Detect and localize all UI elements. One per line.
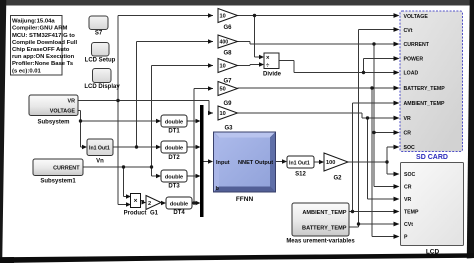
wire CURRENT branch to Product in1 <box>124 167 128 197</box>
arrowhead DT3 to Mux <box>196 174 201 178</box>
svg-text:CVt: CVt <box>404 222 413 228</box>
block DT4 double <box>166 197 192 216</box>
block LCD Setup <box>85 43 116 64</box>
svg-text:Divide: Divide <box>263 72 282 78</box>
svg-text:10: 10 <box>220 64 226 70</box>
arrowhead into Vn <box>82 145 87 149</box>
svg-text:VR: VR <box>404 197 411 203</box>
annotation model info box <box>11 16 79 76</box>
svg-text:DT3: DT3 <box>168 184 180 190</box>
junction dot CURRENT/CR riser <box>372 42 375 45</box>
junction dot G6/Divide branch <box>253 14 256 17</box>
svg-text:CVt: CVt <box>404 28 413 34</box>
gain G9 <box>218 82 238 108</box>
junction dot AMBIENT riser <box>351 210 354 213</box>
block S7 <box>89 16 108 37</box>
arrowhead into DT4 <box>161 201 166 205</box>
arrowhead SD VR port <box>394 116 400 121</box>
block DT3 double <box>161 170 187 190</box>
wire riser LOAD net to SD POWER port <box>364 59 395 73</box>
arrowhead DT4 to Mux <box>196 201 201 205</box>
wire branch CVt net to LCD CVt port <box>359 223 395 225</box>
svg-text:LCD Setup: LCD Setup <box>85 58 116 64</box>
svg-text:Vn: Vn <box>96 159 104 165</box>
block DT1 double <box>161 115 187 135</box>
wire FFNN output to S12 <box>276 161 282 163</box>
svg-text:Subsystem: Subsystem <box>37 120 69 126</box>
arrowhead into G8 <box>208 39 213 43</box>
arrowhead SD VOLTAGE port <box>394 13 400 18</box>
svg-text:P: P <box>404 235 408 241</box>
wire BATTERY_TEMP out up to SD CVt port <box>349 30 394 228</box>
arrowhead into G7 <box>208 63 213 67</box>
svg-text:DT4: DT4 <box>173 210 185 216</box>
junction dot VR/LCD VR riser <box>366 116 369 119</box>
junction dot CURRENT/Product riser <box>122 165 125 168</box>
wire VOLTAGE out to DT1 <box>78 111 156 122</box>
wire S12 out to G2 <box>314 161 319 163</box>
svg-text:double: double <box>165 119 183 125</box>
subsystem VOLTAGE <box>29 95 78 126</box>
wire riser CURRENT net down to SD CR and LCD CR <box>374 44 394 187</box>
block S12 (In1 Out1) <box>287 156 314 178</box>
wire G3 out to SD VR port <box>238 113 395 118</box>
svg-text:S12: S12 <box>295 172 306 178</box>
wire G1 out to DT4 <box>161 202 162 204</box>
junction dot CVt branch <box>357 222 360 225</box>
junction dot DT4/G9 riser <box>192 201 195 204</box>
junction dot Vn/G8 riser <box>135 145 138 148</box>
junction dot SOC split <box>385 160 388 163</box>
wire Vn out to DT2 <box>113 146 156 148</box>
svg-text:50: 50 <box>220 87 226 93</box>
svg-text:NNET Output: NNET Output <box>238 160 273 166</box>
svg-text:G9: G9 <box>223 101 232 107</box>
wire riser CURRENT to G7 and down to DT3 <box>152 66 214 177</box>
svg-text:Subsystem1: Subsystem1 <box>40 179 76 185</box>
arrowhead LCD P port <box>394 234 400 239</box>
svg-text:CURRENT: CURRENT <box>53 166 80 172</box>
svg-text:G3: G3 <box>224 126 233 132</box>
arrowhead into Divide x <box>259 55 264 59</box>
subsystem Measurement-variables <box>286 203 355 245</box>
wire DT4 out to Mux <box>192 202 196 204</box>
svg-text:100: 100 <box>326 160 335 166</box>
wire G2 out SOC net <box>348 161 387 163</box>
arrowhead SD LOAD port <box>394 70 400 75</box>
gain G6 <box>218 9 238 32</box>
arrowhead into Product in1 <box>126 194 131 198</box>
gain G2 <box>324 153 348 182</box>
svg-text:×: × <box>266 55 270 61</box>
arrowhead SD CVt port <box>394 27 400 32</box>
arrowhead SD CR port <box>394 130 400 135</box>
arrowhead SD CURRENT port <box>394 42 400 47</box>
svg-text:AMBIENT_TEMP: AMBIENT_TEMP <box>404 101 445 107</box>
wire Divide out to SD LOAD port <box>279 61 394 73</box>
wire G9 out to SD BATTERY_TEMP port <box>238 87 395 89</box>
svg-text:SOC: SOC <box>404 145 415 151</box>
block Product <box>124 194 147 217</box>
wire Product out to G1 <box>141 201 144 203</box>
arrowhead LCD CVt port <box>394 222 400 227</box>
neural network FFNN <box>213 132 276 204</box>
arrowhead into G1 <box>142 201 147 205</box>
svg-text:double: double <box>165 174 183 180</box>
block DT2 double <box>161 141 187 161</box>
svg-text:10: 10 <box>220 14 226 20</box>
wire riser Vn to G8 <box>137 42 214 148</box>
mux Mux <box>200 105 204 217</box>
arrowhead SD AMBIENT_TEMP port <box>394 101 400 106</box>
svg-text:In1 Out1: In1 Out1 <box>89 145 110 151</box>
junction dot CR branch <box>372 131 375 134</box>
block Divide <box>263 53 282 78</box>
wire G8 out to SD CURRENT port <box>238 42 395 45</box>
arrowhead into G3 <box>208 111 213 115</box>
svg-text:CR: CR <box>404 185 412 191</box>
arrowhead SD BATTERY_TEMP port <box>394 86 400 91</box>
subsystem SD CARD <box>400 11 463 161</box>
arrowhead into DT2 <box>156 145 161 149</box>
subsystem LCD <box>401 163 464 256</box>
svg-text:G8: G8 <box>223 51 232 57</box>
frame right bar <box>467 0 474 259</box>
arrowhead LCD CR port <box>394 184 400 189</box>
svg-text:Meas urement-variables: Meas urement-variables <box>286 239 355 245</box>
svg-text:×: × <box>134 197 138 204</box>
junction dot BATTERY/P riser <box>370 86 373 89</box>
svg-text:G2: G2 <box>333 176 342 182</box>
svg-text:LOAD: LOAD <box>404 71 419 77</box>
wire VR net: VOLTAGE.VR to G3 input corner <box>78 101 213 114</box>
frame top bar <box>0 0 474 6</box>
junction dot LOAD/POWER riser <box>362 71 365 74</box>
svg-text:S7: S7 <box>95 31 103 37</box>
wire AMBIENT_TEMP out to LCD TEMP port <box>349 211 394 213</box>
wire Mux out to FFNN Input <box>204 161 209 163</box>
svg-text:VOLTAGE: VOLTAGE <box>404 14 429 20</box>
svg-text:CR: CR <box>404 131 412 137</box>
svg-text:400: 400 <box>220 40 229 46</box>
arrowhead into FFNN Input <box>208 159 213 163</box>
svg-text:VR: VR <box>68 99 76 105</box>
svg-text:G1: G1 <box>150 211 159 217</box>
svg-text:LCD Display: LCD Display <box>84 84 120 90</box>
junction dot CURRENT/G7 riser <box>150 165 153 168</box>
frame left bar <box>0 0 6 263</box>
svg-text:CURRENT: CURRENT <box>404 42 430 48</box>
arrowhead LCD SOC port <box>394 172 400 177</box>
svg-text:G6: G6 <box>223 25 232 31</box>
wire riser VR to G6 and down to Product in2 <box>118 16 213 205</box>
subsystem CURRENT <box>33 159 83 185</box>
svg-text:10: 10 <box>220 111 226 117</box>
gain G7 <box>218 59 238 85</box>
arrowhead into G9 <box>208 86 213 90</box>
wire DT1 out to Mux <box>187 120 196 122</box>
svg-text:TEMP: TEMP <box>404 210 419 216</box>
wire VOLTAGE branch down to Vn In1 <box>81 121 83 147</box>
wire DT3 out to Mux <box>187 175 196 177</box>
gain G8 <box>218 35 238 57</box>
frame bottom bar <box>0 253 474 263</box>
wire DT2 out to Mux <box>187 146 196 148</box>
svg-text:double: double <box>170 201 188 207</box>
arrowhead into Divide div <box>259 62 264 66</box>
junction dot VOLTAGE branch <box>79 119 82 122</box>
arrowhead into DT1 <box>156 119 161 123</box>
arrowhead DT1 to Mux <box>196 119 201 123</box>
wire riser BATTERY net down to LCD P port <box>372 88 394 237</box>
svg-text:In1 Out1: In1 Out1 <box>289 160 310 166</box>
wire G7 out to Divide div input <box>238 65 260 66</box>
svg-text:BATTERY_TEMP: BATTERY_TEMP <box>302 225 347 231</box>
block LCD Display <box>84 69 120 91</box>
gain G3 <box>218 106 238 132</box>
wire G6 branch down to Divide x input <box>255 16 260 58</box>
arrowhead into G2 <box>319 160 324 164</box>
svg-text:Input: Input <box>216 160 230 166</box>
gain G1 <box>146 196 161 217</box>
svg-text:VOLTAGE: VOLTAGE <box>50 109 76 115</box>
svg-text:POWER: POWER <box>404 57 424 63</box>
wire riser SOC net to SD SOC and LCD SOC <box>387 147 394 174</box>
block Vn (In1 Out1) <box>87 139 113 165</box>
wire G6 out to SD VOLTAGE port <box>238 15 395 17</box>
wire riser AMBIENT net up to SD AMBIENT_TEMP port <box>353 103 395 212</box>
svg-text:Product: Product <box>124 211 147 217</box>
svg-text:FFNN: FFNN <box>236 196 254 203</box>
wire riser DT4 net to G9 input <box>194 89 213 204</box>
arrowhead into DT3 <box>156 174 161 178</box>
svg-text:Waijung:15.04a Compiler:GNU AR: Waijung:15.04a Compiler:GNU ARM MCU: STM… <box>12 19 79 75</box>
arrowhead SD POWER port <box>394 56 400 61</box>
svg-text:AMBIENT_TEMP: AMBIENT_TEMP <box>302 210 346 216</box>
arrowhead into G6 <box>208 13 213 17</box>
arrowhead SD SOC port <box>394 145 400 150</box>
wire riser VR net down to LCD VR port <box>368 118 395 199</box>
svg-text:double: double <box>165 145 183 151</box>
arrowhead LCD VR port <box>394 197 400 202</box>
arrowhead into S12 <box>282 159 287 163</box>
arrowhead into Product in2 <box>126 202 131 206</box>
svg-text:BATTERY_TEMP: BATTERY_TEMP <box>404 86 446 92</box>
arrowhead LCD TEMP port <box>394 209 400 214</box>
svg-text:SOC: SOC <box>404 172 415 178</box>
svg-text:2: 2 <box>148 201 151 207</box>
svg-text:DT1: DT1 <box>168 129 180 135</box>
wire CURRENT out <box>83 166 152 168</box>
svg-text:DT2: DT2 <box>168 155 180 161</box>
junction dot VR/G6 riser <box>116 99 119 102</box>
svg-text:SD CARD: SD CARD <box>416 154 448 161</box>
arrowhead DT2 to Mux <box>196 145 201 149</box>
svg-text:VR: VR <box>404 116 411 122</box>
